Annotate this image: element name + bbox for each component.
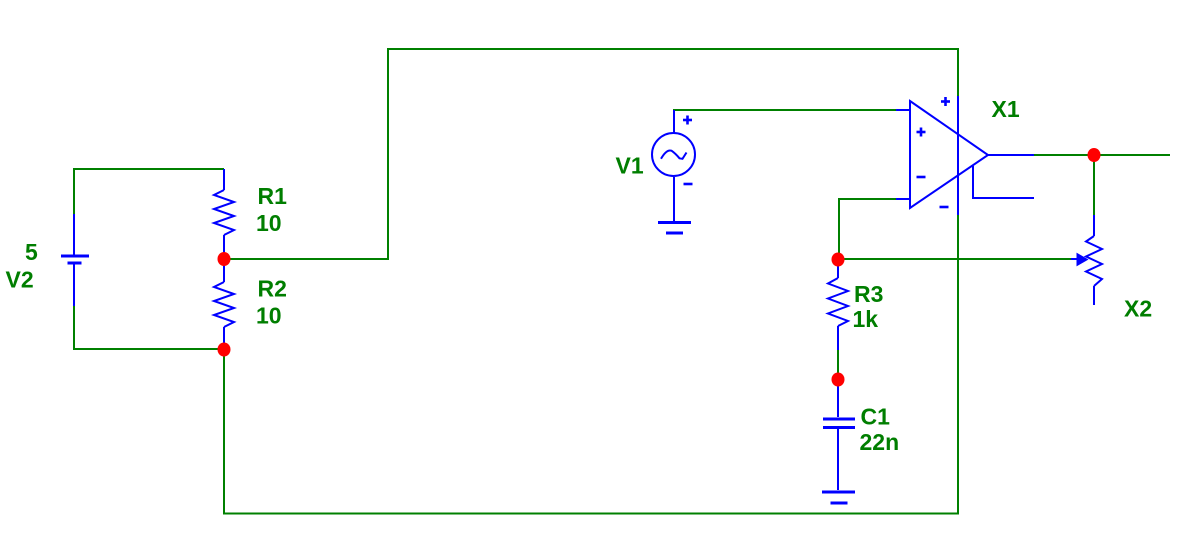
battery V2 <box>61 214 89 306</box>
wire: R3 bottom lead to C1 junction <box>837 349 839 380</box>
op-amp X1 <box>896 96 1034 215</box>
op-amp V+ power plus mark <box>941 97 950 106</box>
wire: op-amp V- pin down to bottom rail <box>957 214 959 515</box>
ground (below C1) <box>822 492 855 503</box>
svg-text:X1: X1 <box>992 96 1020 122</box>
op-amp V- power minus mark <box>940 206 949 209</box>
svg-text:5: 5 <box>25 239 38 265</box>
svg-text:C1: C1 <box>861 404 891 430</box>
svg-text:1k: 1k <box>853 306 879 332</box>
svg-text:V1: V1 <box>616 153 644 179</box>
wire: left loop bottom junction down to bottom rail <box>223 349 225 515</box>
source V1 <box>652 110 695 221</box>
wire: op-amp output <box>1033 154 1170 156</box>
svg-text:10: 10 <box>256 303 282 329</box>
V1 minus mark <box>684 183 693 186</box>
wire: bottom of left loop <box>73 348 224 350</box>
wire: R3 top junction to X2 wiper arrow <box>838 258 1072 260</box>
op-amp inside minus mark <box>917 176 926 179</box>
wire: inverting input down to R3 top junction <box>838 198 840 259</box>
node: R1/R2 junction <box>218 252 231 266</box>
wire: op-amp inverting input horizontal <box>838 198 898 200</box>
wire: bottom rail <box>223 513 959 515</box>
wire: R1/R2 junction to riser <box>224 258 389 260</box>
svg-text:R3: R3 <box>854 281 883 307</box>
svg-text:R2: R2 <box>258 276 287 302</box>
ground (below V1) <box>658 223 691 234</box>
wire: top of left loop <box>73 168 224 170</box>
resistor R1 <box>214 169 234 259</box>
wire: left vertical lower (battery bottom lead net) <box>73 305 75 350</box>
svg-text:V2: V2 <box>6 267 34 293</box>
wire: V1 to op-amp non-inverting input <box>673 109 897 111</box>
wire: riser up to top rail <box>387 48 389 260</box>
capacitor C1 <box>823 380 855 490</box>
node: output junction <box>1088 148 1101 162</box>
svg-text:R1: R1 <box>258 183 288 209</box>
node: R2 bottom junction <box>218 343 231 357</box>
svg-text:X2: X2 <box>1124 296 1152 322</box>
op-amp inside plus mark <box>917 128 926 137</box>
node: R3 top junction <box>832 253 845 267</box>
resistor R3 <box>828 259 848 350</box>
wire: output junction down to X2 top <box>1093 155 1095 216</box>
X2 wiper arrow <box>1071 254 1088 266</box>
resistor R2 <box>214 259 234 350</box>
svg-text:10: 10 <box>256 210 282 236</box>
node: R3/C1 junction <box>832 373 845 387</box>
wire: left vertical upper (battery top lead net) <box>73 168 75 215</box>
V1 plus mark <box>683 116 692 125</box>
potentiometer X2 <box>1086 215 1102 305</box>
wire: top rail <box>387 48 959 50</box>
wire: top rail down to op-amp V+ pin <box>957 48 959 97</box>
svg-text:22n: 22n <box>860 429 900 455</box>
